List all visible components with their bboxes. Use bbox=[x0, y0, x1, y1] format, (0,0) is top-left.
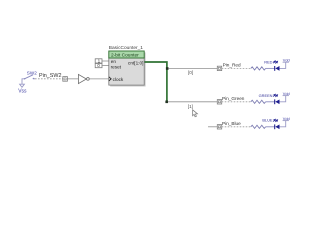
constant 1 (logic high) bbox=[95, 59, 102, 63]
svg-text:BasicCounter_1: BasicCounter_1 bbox=[109, 45, 143, 51]
svg-text:reset: reset bbox=[111, 65, 122, 70]
svg-text:Vdd: Vdd bbox=[283, 57, 290, 62]
resistor R red bbox=[251, 67, 266, 70]
wire constant1 to en bbox=[102, 60, 109, 62]
svg-text:RED: RED bbox=[264, 59, 272, 64]
svg-text:Vdd: Vdd bbox=[283, 91, 290, 96]
wire Pin_Red dashed bbox=[222, 67, 251, 69]
component BasicCounter_1 shadow bbox=[110, 52, 145, 86]
switch SW2 bbox=[25, 75, 36, 79]
junction node [1] bbox=[165, 101, 168, 104]
svg-text:Vdd: Vdd bbox=[283, 116, 290, 121]
LED BLUE diode bbox=[274, 124, 276, 129]
svg-text:GREEN: GREEN bbox=[259, 93, 273, 98]
svg-text:en: en bbox=[111, 59, 117, 64]
wire stub Pin_Blue bbox=[208, 126, 217, 128]
svg-text:Vss: Vss bbox=[18, 88, 27, 94]
LED GREEN diode bbox=[274, 99, 276, 104]
pin Pin_Red bbox=[217, 66, 221, 70]
svg-text:2-bit Counter: 2-bit Counter bbox=[111, 52, 139, 58]
bus cnt[1:0] bbox=[145, 62, 167, 102]
wire SW2 to Pin_SW2 dashed bbox=[35, 78, 63, 80]
wire resistor to LED bbox=[266, 126, 275, 128]
power Vdd (red row) bbox=[283, 61, 289, 63]
wire tap [0] bbox=[168, 67, 217, 69]
resistor R green bbox=[251, 100, 266, 103]
junction node [0] bbox=[166, 67, 169, 70]
wire resistor to LED bbox=[266, 101, 275, 103]
wire constant0 to reset bbox=[102, 65, 109, 67]
pin Pin_SW2 bbox=[63, 77, 68, 82]
wire LED to Vdd bbox=[280, 121, 286, 127]
svg-text:Pin_SW2: Pin_SW2 bbox=[39, 73, 61, 79]
svg-text:BLUE: BLUE bbox=[262, 117, 273, 122]
component BasicCounter_1 body bbox=[109, 58, 144, 85]
wire Pin_Blue dashed bbox=[222, 126, 251, 128]
wire Pin_Green dashed bbox=[222, 101, 251, 103]
svg-text:Pin_Green: Pin_Green bbox=[222, 96, 245, 101]
LED RED diode bbox=[274, 66, 276, 71]
pin Pin_Blue bbox=[217, 125, 221, 129]
svg-text:Pin_Blue: Pin_Blue bbox=[222, 121, 241, 126]
LED GREEN emission arrows bbox=[273, 94, 277, 97]
wire Pin_SW2 to inverter bbox=[67, 78, 78, 80]
wire resistor to LED bbox=[266, 67, 275, 69]
wire LED to Vdd bbox=[280, 96, 286, 102]
wire inverter to clock bbox=[89, 78, 109, 80]
LED RED emission arrows bbox=[273, 61, 277, 64]
ground Vss bbox=[20, 79, 25, 88]
svg-text:cnt[1:0]: cnt[1:0] bbox=[128, 60, 143, 65]
component BasicCounter_1 header bbox=[109, 51, 144, 58]
svg-text:[1]: [1] bbox=[188, 104, 193, 109]
wire tap [1] bbox=[168, 101, 218, 103]
constant 0 (logic low) bbox=[95, 64, 102, 68]
resistor R blue bbox=[251, 125, 266, 128]
LED BLUE emission arrows bbox=[273, 119, 277, 122]
svg-text:SW2: SW2 bbox=[27, 70, 37, 75]
wire LED to Vdd bbox=[280, 62, 286, 68]
power Vdd (green row) bbox=[283, 95, 289, 97]
pin Pin_Green bbox=[217, 100, 221, 104]
clock chevron bbox=[109, 77, 111, 81]
mouse cursor bbox=[193, 110, 198, 117]
inverter U1 bbox=[78, 74, 86, 83]
svg-text:[0]: [0] bbox=[188, 70, 193, 75]
power Vdd (blue row) bbox=[283, 120, 289, 122]
svg-text:clock: clock bbox=[113, 77, 124, 82]
svg-text:Pin_Red: Pin_Red bbox=[223, 63, 241, 68]
